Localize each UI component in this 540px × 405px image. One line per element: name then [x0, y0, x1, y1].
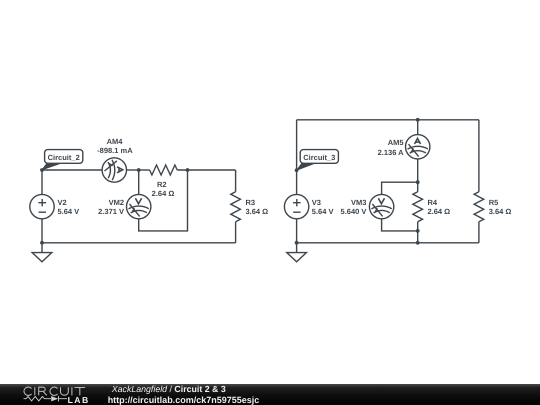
- label V3: [312, 198, 334, 216]
- junction: R2 / VM2 return: [186, 168, 190, 172]
- ground (right circuit): [287, 243, 307, 262]
- wire bottom (left circuit): [42, 242, 236, 244]
- resistor R5: [474, 192, 484, 222]
- wire left side (V3 top): [296, 120, 298, 195]
- label VM2: [98, 198, 124, 216]
- label AM5: [378, 138, 405, 157]
- label AM4: [97, 137, 133, 155]
- wire V3 bottom lead: [296, 219, 298, 243]
- wire VM2 bottom loop: [139, 170, 188, 231]
- wire right side (R5 top lead): [478, 120, 480, 192]
- svg-text:V3: V3: [312, 198, 321, 207]
- voltage source V3: [284, 194, 308, 218]
- wire R5 bottom lead: [478, 222, 480, 243]
- junction: R4 / bottom wire: [416, 241, 420, 245]
- wire R3 bottom lead: [235, 222, 237, 243]
- junction: AM5 / VM3 / R4: [416, 180, 420, 184]
- junction: V2 / bottom wire / ground: [40, 241, 44, 245]
- wire AM5 bottom lead: [417, 159, 419, 182]
- svg-text:-898.1 mA: -898.1 mA: [97, 146, 133, 155]
- svg-text:XackLangfield / Circuit 2 & 3: XackLangfield / Circuit 2 & 3: [111, 384, 226, 394]
- wire junction to R2: [139, 169, 150, 171]
- footer bar: [0, 384, 540, 405]
- resistor R2: [150, 165, 178, 175]
- svg-text:LAB: LAB: [68, 395, 90, 405]
- svg-text:R2: R2: [157, 180, 167, 189]
- wire bottom (right circuit): [297, 242, 479, 244]
- wire R2 to R3 corner: [177, 169, 235, 171]
- junction: AM4 / VM2 / R2: [137, 168, 141, 172]
- svg-text:5.64 V: 5.64 V: [58, 207, 80, 216]
- voltmeter VM3: [369, 194, 393, 218]
- ground (left circuit): [32, 243, 52, 262]
- label R5: [489, 198, 512, 216]
- svg-text:V2: V2: [58, 198, 67, 207]
- svg-text:AM5: AM5: [388, 138, 404, 147]
- svg-text:3.64 Ω: 3.64 Ω: [246, 207, 269, 216]
- resistor R3: [231, 192, 241, 222]
- label Circuit_2: [42, 150, 83, 170]
- svg-text:2.64 Ω: 2.64 Ω: [428, 207, 451, 216]
- wire R4 bottom lead: [417, 222, 419, 243]
- voltage source V2: [30, 194, 54, 218]
- junction: V3 / bottom wire / ground: [295, 241, 299, 245]
- voltmeter VM2: [127, 194, 151, 218]
- svg-text:3.64 Ω: 3.64 Ω: [489, 207, 512, 216]
- wire VM3 bottom loop: [382, 219, 418, 231]
- wire R4 top lead: [417, 182, 419, 192]
- wire AM5 top lead: [417, 120, 419, 135]
- svg-text:5.64 V: 5.64 V: [312, 207, 334, 216]
- wire V2 top lead: [41, 170, 43, 194]
- svg-text:R5: R5: [489, 198, 499, 207]
- label R2: [152, 180, 175, 198]
- label R4: [428, 198, 451, 216]
- svg-text:VM3: VM3: [351, 198, 366, 207]
- junction: top wire / AM5: [416, 118, 420, 122]
- ammeter AM4: [102, 158, 126, 182]
- svg-text:Circuit_2: Circuit_2: [48, 153, 80, 162]
- svg-text:http://circuitlab.com/ck7n5975: http://circuitlab.com/ck7n59755esjc: [108, 395, 260, 405]
- svg-text:5.640 V: 5.640 V: [341, 207, 367, 216]
- label VM3: [341, 198, 367, 216]
- resistor R4: [413, 192, 423, 222]
- wire VM2 top lead: [138, 170, 140, 195]
- label V2: [58, 198, 80, 216]
- svg-text:AM4: AM4: [107, 137, 124, 146]
- wire R3 top lead: [235, 170, 237, 192]
- logo resistor-diode glyph: [24, 396, 68, 402]
- svg-text:2.64 Ω: 2.64 Ω: [152, 189, 175, 198]
- ammeter AM5: [406, 135, 430, 159]
- svg-text:Circuit_3: Circuit_3: [303, 153, 335, 162]
- svg-text:VM2: VM2: [109, 198, 124, 207]
- wire V2 bottom lead: [41, 219, 43, 243]
- wire AM4 to junction: [127, 169, 139, 171]
- svg-text:2.136 A: 2.136 A: [378, 148, 405, 157]
- label Circuit_3: [297, 150, 339, 170]
- logo CIRCUIT outline text: [24, 387, 85, 395]
- svg-text:2.371 V: 2.371 V: [98, 207, 124, 216]
- svg-text:R3: R3: [246, 198, 256, 207]
- wire branch to VM3 top: [382, 182, 418, 195]
- node: Circuit_2 label anchor: [40, 168, 44, 172]
- junction: VM3 return / R4: [416, 229, 420, 233]
- wire top (right circuit): [297, 119, 479, 121]
- svg-text:R4: R4: [428, 198, 438, 207]
- node: Circuit_3 label anchor: [295, 168, 299, 172]
- label R3: [246, 198, 269, 216]
- wire top: V2 corner to AM4: [42, 169, 102, 171]
